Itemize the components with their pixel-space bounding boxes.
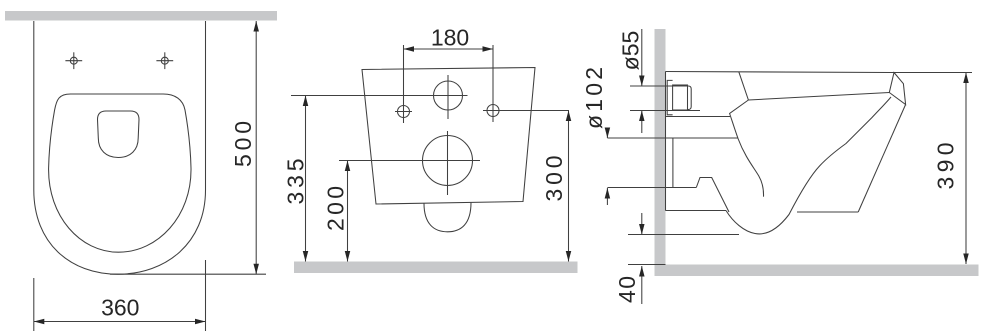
svg-text:300: 300 <box>541 156 567 202</box>
mounting hole right <box>487 105 499 117</box>
inlet bracket <box>667 80 672 114</box>
dim o102 <box>605 128 697 206</box>
shelf line <box>666 137 739 139</box>
mounting hole left <box>398 106 410 118</box>
svg-text:ø102: ø102 <box>581 67 607 129</box>
svg-text:335: 335 <box>283 159 309 205</box>
top ext to 390 <box>894 72 972 74</box>
dim 40 <box>628 213 739 304</box>
svg-text:390: 390 <box>933 143 959 190</box>
dim o55 <box>630 29 700 133</box>
toilet outer outline <box>34 21 206 274</box>
trapezoid body <box>362 68 535 205</box>
inlet pipe body <box>673 85 688 110</box>
inlet circle o55 <box>434 81 463 110</box>
flush hole <box>98 111 140 158</box>
svg-text:180: 180 <box>431 25 469 51</box>
dim 360 <box>34 260 206 331</box>
toilet back and top <box>666 72 895 73</box>
svg-text:200: 200 <box>323 186 349 231</box>
dim 500 <box>110 21 266 274</box>
floor bar <box>655 265 979 277</box>
front face <box>858 105 905 213</box>
svg-text:ø55: ø55 <box>618 31 644 71</box>
wall bar <box>5 11 277 21</box>
inlet pipe tip <box>688 86 692 110</box>
front rim <box>889 73 905 105</box>
wall bar <box>655 29 666 276</box>
drain circle o102 <box>423 136 473 186</box>
floor bar <box>294 262 578 274</box>
seat outline <box>49 94 191 252</box>
svg-text:500: 500 <box>230 121 256 167</box>
lower back face <box>672 138 674 188</box>
svg-text:40: 40 <box>614 276 640 303</box>
svg-text:360: 360 <box>101 295 139 321</box>
dim 300 <box>566 111 572 262</box>
seat plane <box>748 93 889 101</box>
bowl back zigzag <box>730 100 764 197</box>
bottom bump <box>424 203 471 232</box>
dim 390 <box>963 73 969 265</box>
ledge line <box>666 116 730 118</box>
dim 200 <box>345 161 351 262</box>
dim 180 <box>404 46 494 52</box>
oblique from top <box>739 72 749 100</box>
under-bowl U and interior bowl curve <box>726 97 891 234</box>
dim 335 <box>303 96 309 262</box>
bottom front line <box>797 211 858 213</box>
bottom back line <box>666 210 727 212</box>
notch <box>696 178 729 213</box>
crosshair right <box>156 52 173 69</box>
crosshair left <box>65 52 82 69</box>
